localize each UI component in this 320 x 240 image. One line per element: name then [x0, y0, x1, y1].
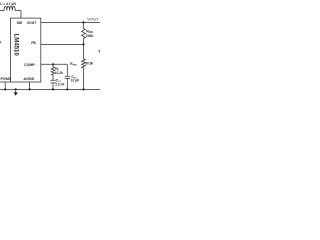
ground rail: [0, 88, 100, 90]
node junction FB: [82, 43, 84, 45]
ground: [14, 88, 18, 96]
wire AGND pin to rail: [29, 82, 31, 89]
resistor RFB2: [82, 44, 86, 89]
svg-text:41.2k: 41.2k: [55, 71, 63, 75]
IC U1 LM4510 box: [11, 18, 41, 82]
resistor RFB1: [82, 22, 86, 44]
capacitor CC1: [50, 80, 55, 89]
wire COMP: [41, 63, 68, 65]
svg-text:240k: 240k: [86, 34, 94, 38]
svg-text:LM4510: LM4510: [13, 34, 19, 57]
wire VOUT pin to right edge: [41, 21, 100, 23]
node junction COMP/RC: [52, 63, 54, 65]
svg-text:VOUT: VOUT: [27, 21, 37, 25]
node junction AGND/rail: [29, 88, 31, 90]
wire PGND pin to rail: [4, 82, 6, 89]
svg-text:COMP: COMP: [24, 63, 35, 67]
svg-text:SW: SW: [17, 21, 23, 25]
resistor RC: [51, 64, 54, 80]
node junction CC2 branch/rail: [66, 88, 68, 90]
wire left of box at PGND level: [0, 81, 11, 83]
inductor L1: [0, 6, 21, 10]
wire FB to divider: [41, 43, 84, 45]
svg-text:30.9k: 30.9k: [85, 62, 93, 66]
node junction VOUT/RFB1: [82, 21, 84, 23]
svg-text:FB: FB: [31, 41, 36, 45]
svg-text:L = 4.7 µH: L = 4.7 µH: [0, 2, 16, 6]
wire inductor to SW pin: [20, 11, 22, 19]
cut-off mark right edge: [99, 50, 100, 53]
svg-text:10 pF: 10 pF: [71, 79, 79, 83]
svg-text:PGND: PGND: [1, 77, 12, 81]
svg-text:2.2 nF: 2.2 nF: [55, 83, 64, 87]
capacitor CC2: [65, 64, 71, 89]
node junction RC branch/rail: [52, 88, 54, 90]
node junction RFB2/rail: [82, 88, 84, 90]
svg-text:VOUT: VOUT: [87, 17, 99, 22]
node junction PGND/rail: [4, 88, 6, 90]
cut-off mark left edge: [0, 41, 1, 43]
svg-text:AGND: AGND: [23, 77, 34, 81]
